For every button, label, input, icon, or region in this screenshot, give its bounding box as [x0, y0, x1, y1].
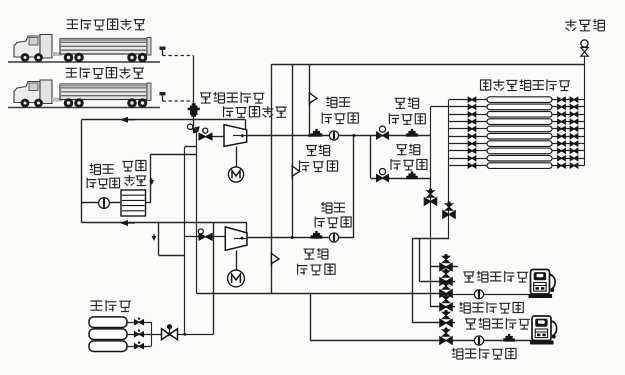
- compressor 1 (trapezoid): [224, 125, 247, 147]
- wire: dispenser row 1 (pressure sensor): [431, 266, 459, 268]
- fuel dispenser 1: [529, 270, 556, 299]
- pressure tap fitting on lower sensor line: [406, 171, 418, 179]
- wire: bus B from storage bank: [448, 166, 450, 239]
- valve cluster on bus B: [443, 201, 456, 218]
- label: 温度传感器 (dispenser 1): [459, 302, 523, 313]
- label: 站内高压储氢罐: [481, 79, 571, 90]
- valve cluster row 4: [440, 294, 453, 311]
- wire: water cooler inlet line with temperature sensor: [82, 202, 122, 204]
- main tank valve with handwheel: [162, 329, 178, 340]
- wire: heat exchanger outlet riser: [146, 202, 151, 204]
- label: 压力传感器 (trailer riser): [200, 92, 264, 103]
- wire: tank collector: [151, 322, 153, 346]
- valve V2 at compressor 1 inlet (handwheel): [203, 128, 208, 133]
- wire: riser B (to dispenser line): [196, 131, 198, 294]
- label: 压力 / 传感器 (compr 2 discharge): [304, 248, 328, 259]
- label: 氢气罐: [90, 300, 131, 312]
- wire: compressor 2 inlet from riser A: [185, 236, 226, 238]
- label: 压力传感器 (dispenser 2): [465, 318, 530, 329]
- pressure sensor valve on trailer riser (dark): [188, 103, 200, 117]
- label: 压力 / 传感器 (upper manifold): [395, 97, 419, 108]
- wire: bus A (storage row 2 to dispenser sensors): [430, 107, 432, 307]
- label: 氢气压缩机: [224, 106, 287, 117]
- wire: dispenser row 5: [412, 322, 455, 324]
- wire: relief branch 2: [292, 64, 294, 238]
- wire: cooling supply line (top, to compressor 1 jacket): [82, 119, 246, 121]
- wire: discharge join riser: [353, 136, 355, 238]
- wire: compressor 1 discharge line: [247, 135, 431, 137]
- temperature sensor circle (cooling): [99, 198, 110, 209]
- wire: riser A (hydrogen tank to compressors): [184, 147, 186, 334]
- wire: riser C (tank line up to cooling return): [213, 223, 215, 334]
- check valve on relief branch 1: [271, 253, 273, 267]
- valve with handwheel on upper sensor line: [377, 132, 389, 139]
- water cooling heat exchanger: [121, 190, 146, 216]
- storage bank left valves: [468, 97, 476, 168]
- check valve on relief branch 2: [291, 165, 293, 179]
- pressure tap fitting on upper sensor line: [406, 129, 418, 137]
- wire: storage bank right bus: [584, 64, 586, 166]
- wire: trailer 1 dashed hose to supply riser: [163, 55, 194, 57]
- label: 温度 / 传感器 (compr 1 discharge): [326, 97, 350, 108]
- valve V1 at compressor 1 inlet (handwheel): [188, 124, 193, 129]
- wire: dispenser 2 feed line: [310, 294, 312, 341]
- label: 校验室: [565, 19, 604, 31]
- flow arrow (water, near 系统 label): [151, 178, 153, 182]
- wire: tank outlet stubs: [127, 322, 151, 324]
- storage bank right valves (column 2): [570, 97, 578, 168]
- wire: dispenser row 4 (pressure sensor): [431, 306, 456, 308]
- flow arrow on cooling bottom line: [120, 220, 128, 226]
- flow arrow on cooling top line: [120, 117, 128, 123]
- wire: storage bank left bus: [448, 100, 450, 166]
- valve cluster row 1: [440, 254, 453, 271]
- temperature sensor circle (dispenser 2): [474, 336, 483, 345]
- fuel dispenser 2: [530, 316, 557, 345]
- valve V3 at compressor 2 inlet (handwheel): [198, 229, 203, 234]
- label: 氢气长管拖车 (trailer 1): [67, 19, 145, 30]
- wire: storage bank left stubs: [431, 100, 488, 166]
- wire: relief branch 3: [309, 64, 311, 136]
- wire: branch to dispenser row 2: [419, 239, 421, 282]
- label: 温度 / 传感器 (cooling): [90, 164, 114, 175]
- wire: trailer 2 dashed hose to supply riser: [163, 100, 194, 102]
- label: 温度 / 传感器 (compr 2 discharge): [321, 202, 345, 213]
- flow arrow (water, below cooler): [153, 234, 155, 238]
- in-station high pressure hydrogen storage tubes: [487, 97, 552, 169]
- pressure tap fitting on compressor 2 discharge: [311, 231, 323, 239]
- wire: top relief header (to calibration room): [272, 64, 585, 66]
- tube trailer 2 (drawing): [8, 80, 166, 108]
- tube trailer 1 (drawing): [8, 35, 166, 63]
- storage bank right valves (column 1): [558, 97, 566, 168]
- wire: cooling stub to riser A: [158, 223, 160, 256]
- valve cluster row 6: [440, 327, 453, 344]
- hydrogen tank (3 horizontal vessels): [89, 317, 127, 352]
- valve cluster row 3: [440, 280, 453, 297]
- temperature sensor circle on compressor 2 discharge: [329, 233, 338, 242]
- wire: relief branch 1: [271, 64, 273, 294]
- motor M1: [236, 147, 238, 168]
- motor M2: [236, 251, 238, 271]
- valve with handwheel on lower sensor line: [377, 175, 389, 182]
- wire: cooling return line (bottom, to compressor 2 jacket): [82, 222, 248, 224]
- wire: trailer supply riser: [193, 56, 195, 127]
- label: 水冷 / 系统: [122, 161, 145, 172]
- check valve on relief branch 3: [309, 92, 311, 106]
- label: 氢气长管拖车 (trailer 2): [66, 67, 144, 78]
- pressure tap fitting on compressor 1 discharge: [311, 129, 323, 137]
- label: 温度传感器 (dispenser 2): [452, 348, 516, 359]
- wire: compressor 1 inlet: [212, 136, 224, 138]
- valve cluster row 2: [440, 268, 453, 285]
- wire: tank main line: [151, 334, 213, 336]
- wire: sensor manifold lower line: [371, 178, 431, 180]
- label: 压力 / 传感器 (compr 1 discharge): [306, 145, 330, 156]
- pressure tap fitting before dispenser 2: [503, 334, 515, 342]
- wire: dispenser row 2: [420, 281, 456, 283]
- tank stub valves: [135, 317, 144, 324]
- wire: compressor 2 discharge line: [247, 237, 354, 239]
- wire: cooling left down-comer: [81, 120, 83, 223]
- label: 压力传感器 (dispenser 1): [463, 271, 528, 282]
- temperature sensor circle on compressor 1 discharge: [329, 131, 338, 140]
- wire: storage bank right stubs: [552, 100, 585, 166]
- compressor 2 (trapezoid): [225, 227, 247, 250]
- label: 压力 / 传感器 (lower manifold): [396, 144, 420, 155]
- valve cluster row 5: [440, 310, 453, 327]
- valve cluster on bus A: [424, 188, 437, 205]
- wire: rung joining risers: [185, 146, 197, 148]
- wire: dispenser 1 feed line: [197, 293, 447, 295]
- temperature sensor circle (dispenser 1): [474, 290, 483, 299]
- calibration room control valve: [581, 40, 588, 47]
